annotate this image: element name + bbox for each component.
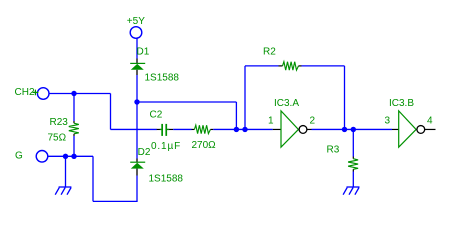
svg-text:3: 3 <box>385 116 391 127</box>
wire G loop bottom <box>93 200 138 202</box>
wire +5Y to D1 <box>136 39 138 59</box>
svg-text:IC3.B: IC3.B <box>389 98 414 109</box>
wire CH2 line <box>49 93 111 95</box>
diode D1 <box>130 47 150 76</box>
node R2 right junction <box>342 127 347 132</box>
ground symbol right <box>343 187 359 195</box>
svg-text:1: 1 <box>268 116 274 127</box>
resistor R23 <box>48 94 79 157</box>
wire ground drop <box>65 156 67 187</box>
wire input line left <box>111 128 157 130</box>
capacitor C2 <box>150 110 182 153</box>
ground symbol left <box>55 187 71 195</box>
node clamp junction <box>134 99 139 104</box>
svg-text:1S1588: 1S1588 <box>149 174 184 185</box>
wire G loop down <box>92 156 94 201</box>
power +5Y terminal <box>127 16 145 39</box>
svg-text:75Ω: 75Ω <box>48 133 67 144</box>
node R3 junction <box>351 127 356 132</box>
svg-text:C2: C2 <box>150 110 163 121</box>
svg-text:0.1µF: 0.1µF <box>151 141 181 152</box>
wire IC3.A output line <box>312 128 393 130</box>
wire cap to resistor <box>173 128 191 130</box>
svg-text:R2: R2 <box>263 47 276 58</box>
wire D1 to clamp node, through crossing, to D2 <box>136 75 138 159</box>
svg-text:G: G <box>15 151 23 162</box>
node G/R23 junction <box>71 154 76 159</box>
diode D2 <box>130 147 151 176</box>
svg-text:4: 4 <box>427 116 433 127</box>
terminal CH2 <box>15 87 50 99</box>
wire G line <box>48 155 93 157</box>
node R2 left junction <box>242 127 247 132</box>
node clamp/input junction <box>234 127 239 132</box>
wire clamp node horizontal <box>137 101 236 103</box>
svg-text:2: 2 <box>310 116 316 127</box>
svg-text:IC3.A: IC3.A <box>274 98 299 109</box>
node CH2/R23 junction <box>71 91 76 96</box>
wire resistor to IC3.A input <box>213 128 272 130</box>
wire R2 right leg <box>344 66 346 130</box>
wire clamp drop to input node <box>235 102 237 129</box>
wire R2 top left <box>245 65 279 67</box>
inverter gate IC3.A <box>268 98 316 147</box>
svg-text:1S1588: 1S1588 <box>145 73 180 84</box>
svg-text:+5Y: +5Y <box>127 16 145 27</box>
inverter gate IC3.B <box>385 98 436 147</box>
terminal G <box>15 151 48 163</box>
svg-text:R23: R23 <box>50 117 69 128</box>
svg-text:D1: D1 <box>137 47 150 58</box>
wire CH2 corner down <box>110 94 112 130</box>
wire D2 anode to loop <box>136 176 138 202</box>
svg-text:270Ω: 270Ω <box>192 140 217 151</box>
wire R2 left leg <box>244 66 246 130</box>
svg-text:D2: D2 <box>138 147 151 158</box>
node G/ground junction <box>63 154 68 159</box>
wire R2 top right <box>302 65 345 67</box>
svg-text:CH2: CH2 <box>15 87 35 98</box>
resistor R3 <box>327 129 359 187</box>
resistor R2 <box>263 47 302 71</box>
resistor 270 ohm <box>192 125 217 151</box>
svg-text:R3: R3 <box>327 145 340 156</box>
